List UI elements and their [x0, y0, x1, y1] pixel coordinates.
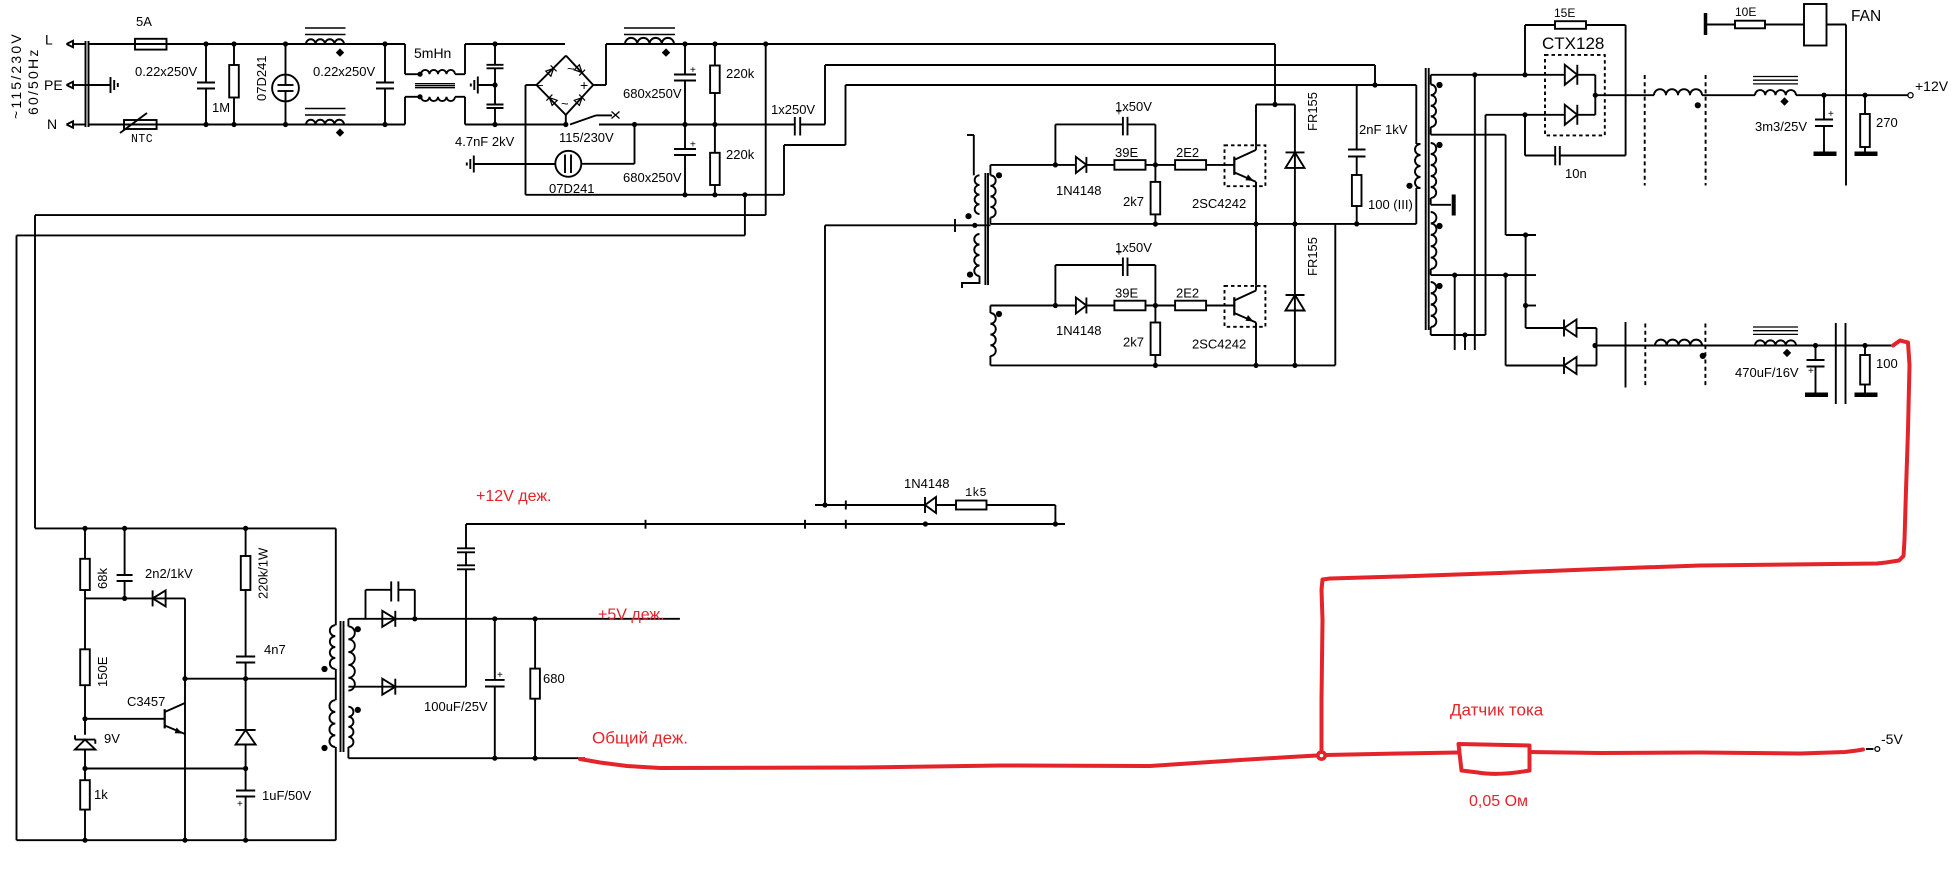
svg-text:1x250V: 1x250V: [771, 102, 815, 117]
svg-text:4n7: 4n7: [264, 642, 286, 657]
svg-text:+5V деж.: +5V деж.: [598, 607, 665, 624]
svg-text:100 (III): 100 (III): [1368, 197, 1413, 212]
svg-text:NTC: NTC: [131, 133, 153, 146]
svg-text:1uF/50V: 1uF/50V: [262, 788, 311, 803]
svg-text:1M: 1M: [212, 100, 230, 115]
svg-text:-5V: -5V: [1881, 731, 1903, 747]
svg-text:2nF 1kV: 2nF 1kV: [1359, 122, 1408, 137]
svg-text:220k: 220k: [726, 147, 755, 162]
svg-text:2E2: 2E2: [1176, 145, 1199, 160]
svg-text:220k: 220k: [726, 66, 755, 81]
svg-text:+: +: [497, 670, 503, 681]
svg-text:CTX128: CTX128: [1542, 34, 1604, 53]
svg-text:220k/1W: 220k/1W: [256, 547, 271, 599]
svg-text:FR155: FR155: [1305, 92, 1320, 131]
svg-text:5A: 5A: [136, 14, 152, 29]
svg-text:~115/230V: ~115/230V: [8, 32, 24, 119]
svg-text:470uF/16V: 470uF/16V: [1735, 365, 1799, 380]
svg-text:L: L: [45, 32, 53, 48]
svg-text:FR155: FR155: [1305, 237, 1320, 276]
svg-text:1N4148: 1N4148: [904, 476, 950, 491]
svg-text:+: +: [1828, 109, 1834, 120]
svg-text:N: N: [47, 116, 57, 132]
svg-text:2SC4242: 2SC4242: [1192, 196, 1246, 211]
svg-text:2k7: 2k7: [1123, 335, 1144, 350]
svg-text:+: +: [1808, 366, 1814, 377]
svg-text:Общий деж.: Общий деж.: [592, 729, 688, 748]
svg-text:+12V: +12V: [1915, 78, 1949, 94]
svg-text:150E: 150E: [95, 656, 110, 687]
svg-text:115/230V: 115/230V: [559, 130, 614, 145]
svg-text:C3457: C3457: [127, 694, 165, 709]
svg-text:4.7nF 2kV: 4.7nF 2kV: [455, 134, 515, 149]
svg-text:0.22x250V: 0.22x250V: [313, 64, 375, 79]
svg-text:100: 100: [1876, 356, 1898, 371]
svg-text:15E: 15E: [1554, 6, 1575, 20]
svg-text:1k5: 1k5: [965, 486, 987, 500]
svg-text:~: ~: [561, 96, 569, 111]
svg-text:68k: 68k: [95, 568, 110, 589]
svg-text:39E: 39E: [1115, 286, 1138, 301]
svg-text:680x250V: 680x250V: [623, 170, 682, 185]
svg-text:+12V деж.: +12V деж.: [476, 488, 551, 505]
svg-text:2E2: 2E2: [1176, 286, 1199, 301]
svg-text:270: 270: [1876, 115, 1898, 130]
svg-text:680x250V: 680x250V: [623, 86, 682, 101]
svg-text:39E: 39E: [1115, 145, 1138, 160]
svg-text:−: −: [536, 78, 544, 93]
svg-text:10n: 10n: [1565, 166, 1587, 181]
svg-text:+: +: [237, 799, 243, 810]
svg-text:3m3/25V: 3m3/25V: [1755, 119, 1807, 134]
svg-text:10E: 10E: [1735, 5, 1756, 19]
svg-text:PE: PE: [44, 77, 63, 93]
svg-text:1k: 1k: [94, 787, 108, 802]
svg-text:100uF/25V: 100uF/25V: [424, 699, 488, 714]
svg-text:1x50V: 1x50V: [1115, 99, 1152, 114]
svg-text:1N4148: 1N4148: [1056, 183, 1102, 198]
svg-text:2k7: 2k7: [1123, 194, 1144, 209]
svg-text:680: 680: [543, 671, 565, 686]
svg-text:9V: 9V: [104, 731, 120, 746]
svg-text:1N4148: 1N4148: [1056, 323, 1102, 338]
svg-text:2SC4242: 2SC4242: [1192, 337, 1246, 352]
svg-text:+: +: [690, 140, 696, 151]
svg-text:Датчик тока: Датчик тока: [1450, 701, 1544, 720]
svg-text:0.22x250V: 0.22x250V: [135, 64, 197, 79]
svg-text:60/50Hz: 60/50Hz: [25, 47, 41, 115]
svg-text:07D241: 07D241: [549, 181, 595, 196]
svg-text:5mHn: 5mHn: [414, 45, 451, 61]
svg-text:+: +: [580, 77, 588, 93]
svg-text:1x50V: 1x50V: [1115, 240, 1152, 255]
svg-text:0,05 Ом: 0,05 Ом: [1469, 793, 1528, 810]
svg-text:+: +: [690, 65, 696, 76]
svg-text:07D241: 07D241: [254, 55, 269, 101]
svg-text:FAN: FAN: [1851, 8, 1881, 25]
svg-text:~: ~: [567, 61, 575, 76]
svg-text:2n2/1kV: 2n2/1kV: [145, 566, 193, 581]
